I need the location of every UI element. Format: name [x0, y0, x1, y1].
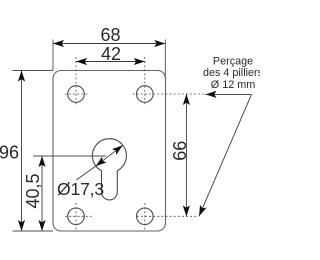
dimension 66: [170, 94, 190, 216]
svg-text:40,5: 40,5: [23, 173, 43, 208]
note text Perçage des 4 pilliers Ø 12 mm: [203, 55, 264, 91]
svg-text:66: 66: [170, 141, 190, 161]
hole top-right: [133, 57, 205, 107]
svg-text:68: 68: [100, 25, 120, 45]
plate outline: [53, 71, 166, 232]
dimension 40,5: [23, 156, 43, 231]
svg-text:42: 42: [101, 44, 121, 64]
svg-text:Ø 12 mm: Ø 12 mm: [211, 79, 255, 91]
dimension 42: [76, 44, 145, 64]
keyhole center extension line: [33, 155, 106, 157]
dimension 68: [53, 25, 165, 77]
svg-text:Perçage: Perçage: [213, 55, 253, 67]
hole bottom-right: [137, 203, 199, 230]
svg-text:96: 96: [0, 143, 19, 163]
svg-text:Ø17,3: Ø17,3: [57, 179, 104, 199]
hole top-left: [65, 57, 88, 107]
keyhole cutout: [92, 139, 126, 200]
dimension Ø17,3 leader: [57, 145, 123, 199]
svg-text:des 4 pilliers: des 4 pilliers: [203, 67, 260, 79]
dimension 96: [0, 71, 53, 232]
hole bottom-left: [65, 203, 91, 230]
note leader arrows: [199, 94, 252, 216]
